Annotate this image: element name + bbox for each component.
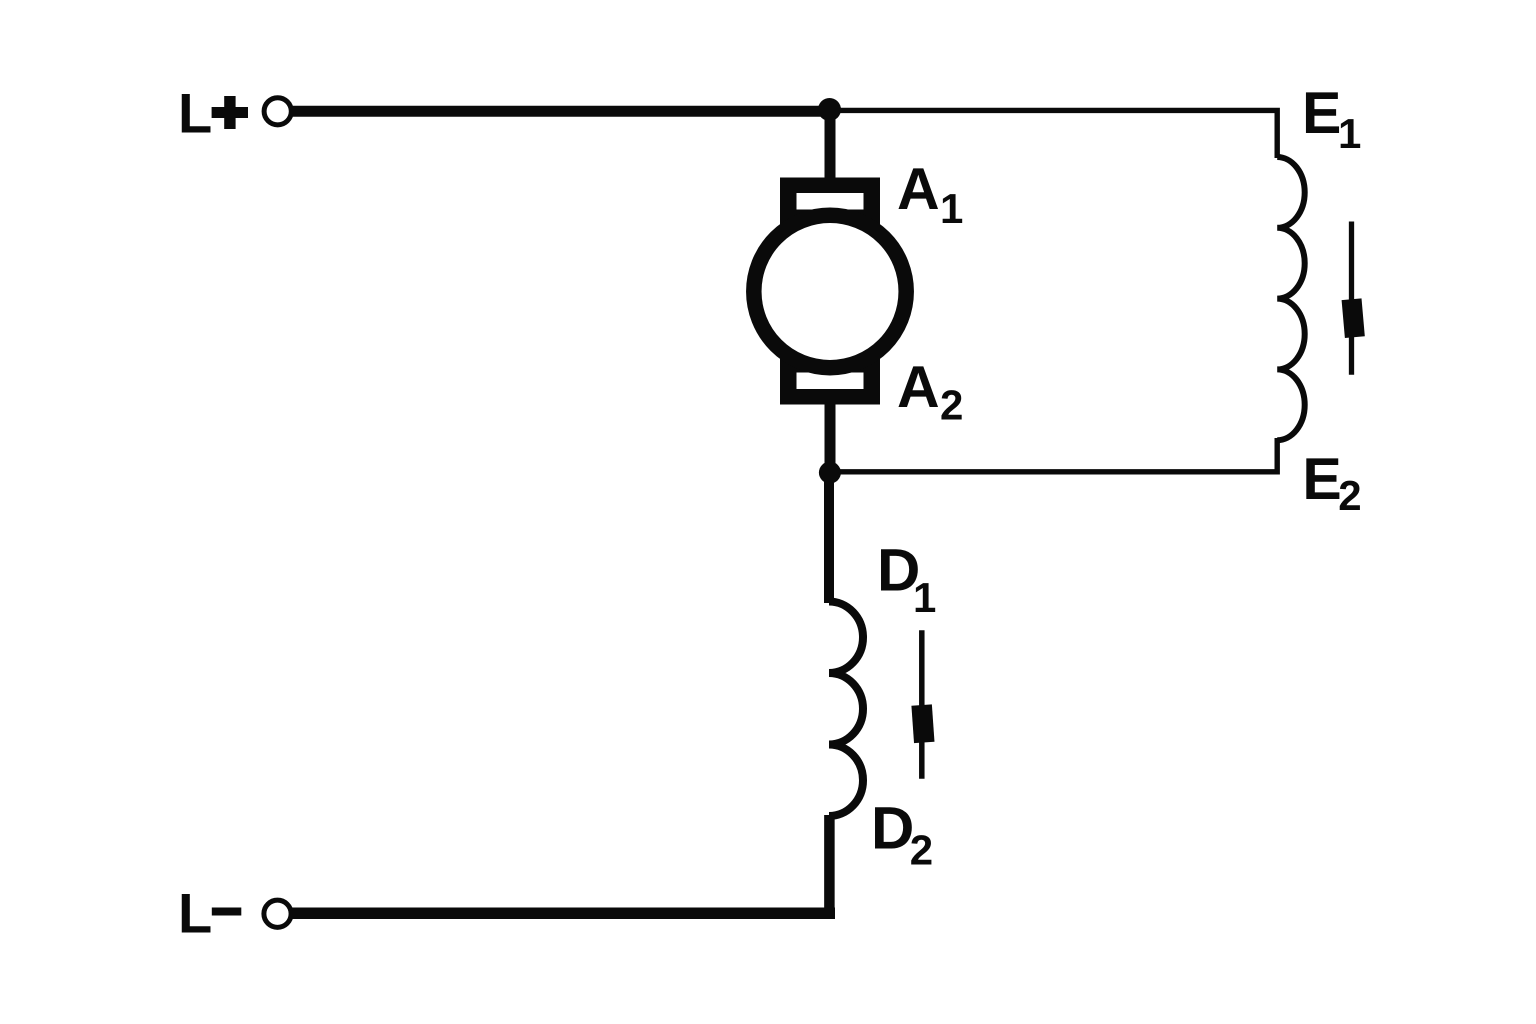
svg-text:2: 2 (1338, 472, 1361, 519)
svg-text:L: L (178, 882, 212, 945)
terminal L- circle (264, 900, 291, 927)
brush block A1 (top rectangle of armature M) (780, 178, 880, 226)
svg-text:1: 1 (913, 574, 936, 621)
node junction dot bottom (819, 462, 841, 484)
wire junction down to armature brush A1 (825, 109, 836, 182)
wire junction to E-field corner (thin shunt run) (830, 110, 1277, 158)
svg-text:D: D (871, 795, 914, 862)
svg-text:2: 2 (940, 382, 963, 429)
svg-text:A: A (897, 354, 940, 420)
svg-text:1: 1 (940, 185, 963, 232)
series winding D1-D2 coil (3 arcs) (829, 602, 863, 817)
svg-text:E: E (1302, 446, 1341, 512)
svg-text:2: 2 (910, 826, 933, 873)
wire L+ to junction (thick top run) (292, 106, 833, 117)
svg-text:A: A (897, 156, 940, 222)
node junction dot top (818, 98, 841, 121)
brush block A2 (bottom rectangle of armature M) (780, 359, 880, 405)
winding axis marker next to D coil (919, 630, 925, 778)
wire armature A2 down to junction 2 (825, 404, 836, 474)
armature M1 rotor circle (754, 215, 906, 367)
svg-text:L: L (178, 82, 212, 145)
wire junction 2 down to series winding D1 (824, 472, 834, 603)
svg-text:E: E (1302, 80, 1341, 146)
shunt winding E1-E2 coil (4 arcs) (1277, 157, 1305, 440)
bottom thick wire run to L- (292, 908, 835, 920)
winding axis marker next to E coil (1349, 222, 1354, 375)
wire junction 2 to E2 corner (thin shunt return run) (830, 438, 1277, 472)
terminal L+ circle (264, 98, 291, 125)
svg-text:1: 1 (1338, 110, 1361, 157)
wire D2 down to bottom run (824, 815, 835, 918)
